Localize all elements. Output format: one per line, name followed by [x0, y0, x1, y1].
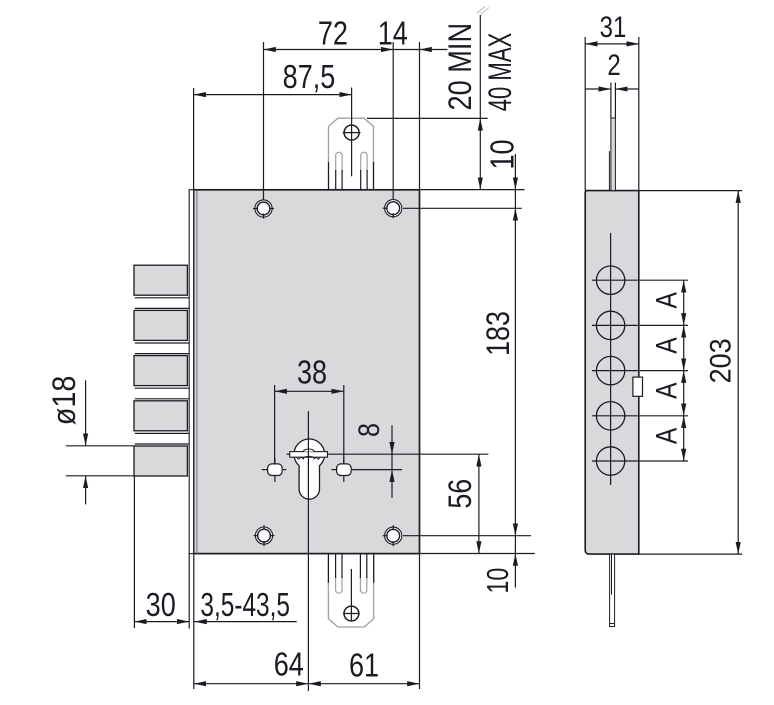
body bottom extension line [420, 553, 535, 555]
dim A lines [683, 280, 685, 325]
dim 8 arrows [391, 425, 393, 454]
cam bottom wave [297, 456, 321, 459]
side bolt circle 1 [596, 266, 624, 294]
svg-text:183: 183 [481, 311, 517, 356]
side bolt circle 5 [596, 447, 624, 475]
top tab slot right [361, 152, 367, 172]
svg-text:A: A [649, 291, 683, 308]
side top edge extension [639, 190, 742, 192]
dim 56 line [478, 454, 480, 553]
svg-text:10: 10 [485, 139, 521, 169]
svg-text:ø18: ø18 [47, 376, 83, 426]
svg-text:10: 10 [480, 568, 515, 594]
cylinder centerline vertical [307, 411, 309, 691]
svg-text:14: 14 [378, 16, 408, 52]
side bolt circle 4 [596, 402, 624, 430]
top tab slot left [336, 152, 342, 172]
bolt neck lines gap3 [135, 387, 189, 389]
fixing hole bottom-right [383, 525, 402, 546]
bottom-right hole centerline extension [403, 535, 531, 537]
fixing hole bottom-left [254, 525, 275, 546]
svg-text:A: A [649, 382, 683, 399]
fixing hole top-right [383, 200, 402, 219]
bolt neck lines gap2 [135, 342, 189, 344]
dim 61 line [309, 683, 420, 685]
side view vertical centerline [610, 233, 612, 485]
svg-text:20 MIN: 20 MIN [443, 23, 479, 111]
dim 30 line [134, 621, 189, 623]
side bolt circle 2 [596, 311, 624, 339]
svg-text:40 MAX: 40 MAX [482, 33, 518, 112]
bottom fixing tab outline [328, 580, 373, 627]
deadbolt 5 [134, 446, 187, 476]
screw hole right [332, 458, 352, 482]
svg-text:3,5-43,5: 3,5-43,5 [200, 588, 290, 624]
svg-text:72: 72 [318, 16, 348, 52]
faint break tick at top of protrusion dim line [477, 7, 486, 14]
fixing hole top-left [253, 200, 274, 219]
bottom tab centerline [350, 569, 352, 620]
dim 10 top arrows [514, 154, 516, 190]
top hole centerline extension [403, 207, 522, 209]
dim 87,5 line [194, 94, 352, 96]
top tab hole [344, 125, 359, 140]
cylinder protrusion reference line [367, 117, 488, 119]
svg-text:38: 38 [297, 355, 327, 391]
cam top bump [303, 449, 314, 452]
circle centerline extensions (A dims) [592, 279, 688, 281]
dim 14 extension line [419, 42, 421, 190]
deadbolt 1 [134, 265, 187, 295]
dim o18 arrows [85, 380, 87, 446]
side faceplate top edge-on [611, 118, 616, 191]
side bottom edge extension [639, 553, 742, 555]
svg-text:A: A [649, 427, 683, 444]
dim 30 extension lines [133, 477, 135, 629]
body top extension line [420, 189, 525, 191]
bottom tab slot left [336, 576, 342, 593]
deadbolt 3 [134, 356, 187, 386]
screw hole left [262, 458, 287, 482]
dim 183 line [514, 208, 516, 535]
faceplate edge-on (front view) [189, 190, 193, 554]
lock body (front view) [194, 190, 420, 554]
svg-text:31: 31 [600, 9, 627, 43]
cylinder centerline horizontal [287, 453, 290, 455]
deadbolt 4 [134, 401, 187, 431]
bottom tab hole [344, 606, 359, 621]
bolt neck lines gap1 [135, 297, 189, 299]
deadbolt 2 [134, 310, 187, 340]
dim 87,5 extension line [193, 88, 195, 190]
svg-text:87,5: 87,5 [283, 60, 336, 96]
svg-text:64: 64 [274, 647, 304, 683]
side bolt circle 3 [596, 356, 624, 384]
body left extension line below [193, 554, 195, 690]
cylinder cam slot [290, 452, 328, 458]
dim o18 extension lines [66, 445, 134, 447]
dim 64 line [194, 683, 309, 685]
svg-text:61: 61 [349, 648, 379, 684]
dim 2 arrows [585, 88, 611, 90]
dim 203 line [737, 191, 739, 554]
dim 3,5-43,5 line [195, 621, 297, 623]
bottom tab slot right [360, 576, 366, 593]
dim 10 bottom arrow [514, 536, 516, 554]
screw holes centerline extension [352, 469, 402, 471]
side faceplate bottom edge-on [610, 554, 615, 627]
dim 38 line [275, 390, 344, 392]
dim 20MIN-40MAX line [479, 15, 481, 119]
faceplate inner line [196, 191, 198, 554]
dim 38 extension lines [274, 385, 276, 464]
dim 72 extension lines [263, 42, 265, 200]
svg-text:203: 203 [704, 338, 738, 383]
dim 31 line [585, 43, 639, 45]
body right extension line below [419, 554, 421, 690]
svg-text:2: 2 [607, 48, 620, 82]
dim 72 line [264, 49, 394, 51]
bolt neck lines gap4 [135, 432, 189, 434]
dim 31 extension lines [584, 37, 586, 191]
dim 14 line and outside arrow [393, 49, 419, 51]
side latch notch [633, 377, 643, 396]
svg-text:A: A [649, 337, 683, 354]
svg-text:30: 30 [146, 588, 176, 624]
euro cylinder hole [294, 439, 325, 499]
top fixing tab outline [329, 118, 374, 163]
top tab centerline [351, 88, 353, 177]
svg-text:8: 8 [352, 423, 386, 437]
side view case [585, 191, 639, 554]
svg-text:56: 56 [443, 479, 479, 509]
